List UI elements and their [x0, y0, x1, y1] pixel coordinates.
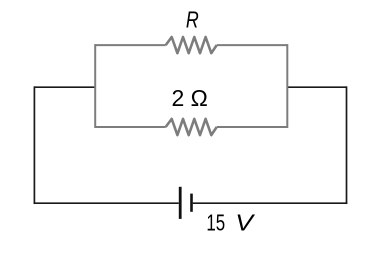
svg-text:V: V: [235, 210, 255, 236]
label V (battery unit): [235, 210, 255, 236]
label R (top resistor): [186, 7, 199, 33]
battery B1 long plate (positive): [179, 187, 182, 219]
wire: outer loop top-right horizontal: [287, 86, 346, 88]
resistor R1 zigzag: [166, 37, 217, 53]
wire: outer loop bottom left segment (to battery): [34, 202, 179, 204]
wire: outer loop right vertical: [346, 86, 348, 204]
wire: outer loop top-left horizontal: [34, 86, 95, 88]
resistor R1 (top branch) lead right: [217, 44, 288, 46]
battery B1 short plate (negative): [190, 194, 193, 212]
svg-text:2 Ω: 2 Ω: [172, 85, 208, 111]
wire: outer loop left vertical: [33, 86, 35, 204]
resistor R2 (bottom branch, 2 ohm) lead left: [95, 126, 166, 128]
wire: outer loop bottom right segment (from battery): [193, 202, 348, 204]
svg-text:15: 15: [206, 211, 225, 236]
resistor R1 (top branch) lead left: [95, 44, 166, 46]
resistor R2 (bottom branch, 2 ohm) lead right: [217, 126, 288, 128]
svg-text:R: R: [186, 7, 199, 33]
node: inner box left edge: [94, 44, 96, 128]
resistor R2 zigzag: [166, 119, 217, 135]
node: inner box right edge: [286, 44, 288, 128]
label 15 (battery value): [206, 211, 225, 236]
